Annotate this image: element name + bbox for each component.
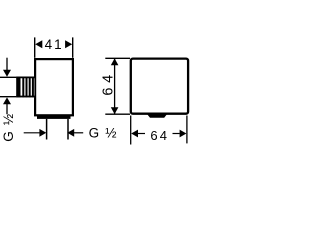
pipe dim vertical line lower [6, 104, 8, 114]
outlet dim left line [24, 132, 41, 134]
outlet tube left wall [46, 119, 48, 140]
svg-text:G ½: G ½ [89, 126, 118, 141]
pipe top extension line to image edge [0, 76, 35, 78]
svg-text:G ½: G ½ [1, 113, 16, 142]
outlet dim right line [74, 132, 83, 134]
pipe dim up arrowhead [3, 97, 11, 104]
left view body outline [35, 59, 73, 115]
hdim 64 left arrowhead [131, 130, 138, 138]
outlet tube right wall [67, 119, 69, 140]
dim 41 right arrowhead [65, 40, 72, 48]
vdim 64 bottom extension line [105, 113, 130, 115]
outlet dim left arrowhead [39, 129, 46, 137]
svg-text:64: 64 [150, 128, 169, 143]
svg-text:41: 41 [45, 37, 64, 52]
vdim 64 top arrowhead [111, 58, 119, 65]
threaded pipe body [16, 77, 35, 98]
outlet dim right arrowhead [67, 129, 74, 137]
pipe bottom extension line to image edge [0, 96, 35, 98]
dim 41 left extension line [34, 37, 36, 57]
hdim 64 right line stub [173, 133, 180, 135]
svg-text:64: 64 [100, 70, 116, 95]
hdim 64 right arrowhead [180, 130, 187, 138]
hdim 64 right extension line [186, 116, 188, 144]
pipe dim down arrowhead [3, 70, 11, 77]
vdim 64 top extension line [105, 57, 130, 59]
flange bar under body [37, 116, 71, 119]
dim 41 left arrowhead [35, 40, 42, 48]
right view outlet trapezoid [147, 113, 168, 117]
dim 41 right extension line [72, 37, 74, 57]
vdim 64 bottom arrowhead [111, 107, 119, 114]
vdim 64 line [114, 59, 116, 114]
right view square outline [131, 59, 188, 114]
pipe dim vertical line upper [6, 58, 8, 71]
hdim 64 left line stub [138, 133, 145, 135]
hdim 64 left extension line [130, 116, 132, 145]
